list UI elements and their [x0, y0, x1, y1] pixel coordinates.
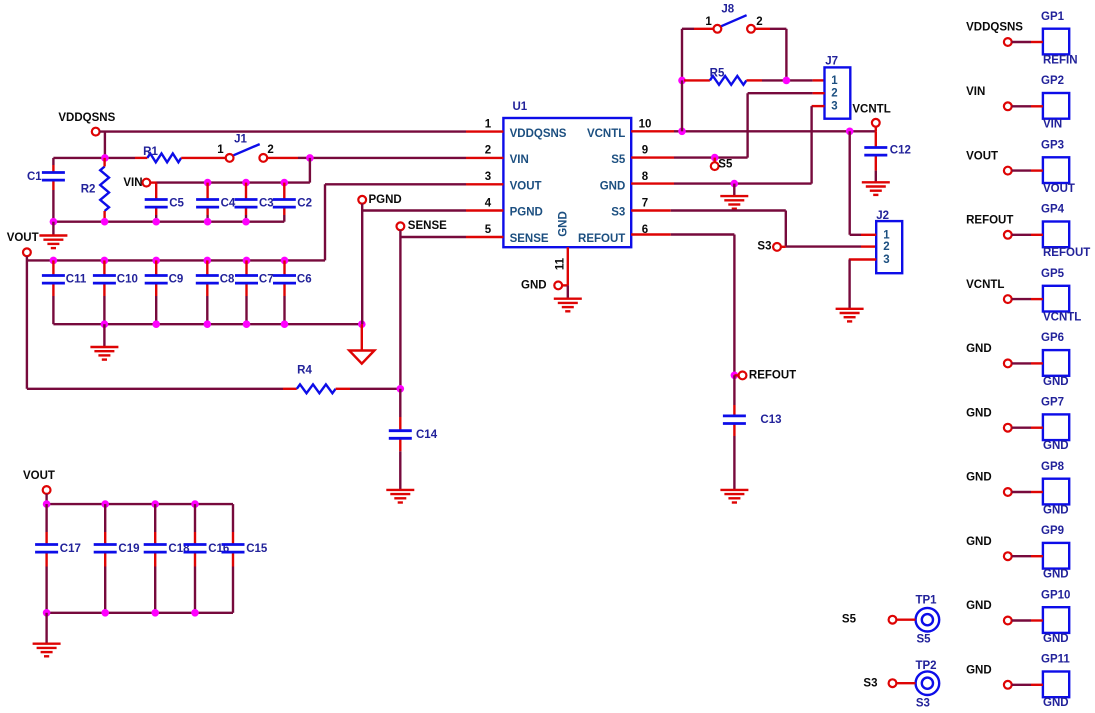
junction S5 [711, 154, 719, 162]
junction lower bus-PGND [358, 320, 366, 328]
svg-text:S3: S3 [611, 207, 625, 219]
connector GP11 [1041, 654, 1070, 710]
ground under C1 bus [39, 222, 67, 248]
svg-text:VOUT: VOUT [1043, 183, 1075, 195]
connector GP3 [1041, 139, 1075, 195]
svg-text:GND: GND [1043, 440, 1069, 452]
svg-text:C13: C13 [760, 414, 781, 426]
U1 pin names right column [578, 128, 626, 245]
node GND terminal (GP11) [966, 665, 1043, 689]
svg-text:SENSE: SENSE [510, 233, 549, 245]
svg-text:GP2: GP2 [1041, 75, 1064, 87]
svg-text:C19: C19 [118, 543, 139, 555]
junction bus-C3 [242, 218, 250, 226]
wire VIN bus [150, 181, 310, 183]
svg-text:GND: GND [558, 211, 570, 237]
svg-text:VOUT: VOUT [510, 181, 542, 193]
connector GP7 [1041, 397, 1069, 453]
svg-text:7: 7 [642, 197, 648, 209]
svg-text:GP9: GP9 [1041, 525, 1064, 537]
U1 left pin numbers 1-5 [485, 118, 492, 235]
svg-text:VCNTL: VCNTL [852, 103, 890, 115]
wire SENSE to U1 pin 5 [400, 230, 503, 237]
svg-text:GND: GND [600, 181, 626, 193]
svg-text:S3: S3 [863, 678, 877, 690]
svg-text:4: 4 [485, 197, 492, 209]
svg-text:GP8: GP8 [1041, 461, 1065, 473]
capacitor C10 [93, 260, 138, 324]
capacitor C7 [235, 260, 274, 324]
svg-text:3: 3 [485, 171, 491, 183]
node REFOUT terminal (GP4) [966, 215, 1043, 239]
wire S3 to J2 pin 2 [786, 245, 876, 247]
svg-text:R1: R1 [143, 146, 158, 158]
svg-text:GP7: GP7 [1041, 397, 1064, 409]
junction VOUT-C10 [101, 257, 109, 265]
node GND terminal (GP7) [966, 407, 1043, 431]
svg-text:1: 1 [705, 16, 712, 28]
junction bus-C4 [204, 218, 212, 226]
svg-text:J1: J1 [234, 134, 247, 146]
connector GP2 [1041, 75, 1069, 131]
svg-text:3: 3 [831, 101, 837, 113]
svg-text:1: 1 [831, 75, 838, 87]
svg-text:GP4: GP4 [1041, 204, 1065, 216]
svg-text:GP3: GP3 [1041, 139, 1064, 151]
wire J1 pin 2 to U1 pin 2 [267, 157, 503, 159]
U1 right pin numbers 10-6 [639, 118, 652, 235]
junction R4-C14-SENSE [397, 385, 405, 393]
junction VOUT-C7 [243, 257, 251, 265]
U1 pin name GND (pin 11, rotated) [558, 211, 570, 237]
svg-text:VDDQSNS: VDDQSNS [58, 112, 115, 124]
svg-text:J8: J8 [721, 3, 734, 15]
svg-text:GND: GND [1043, 376, 1069, 388]
capacitor C14 [389, 389, 438, 490]
svg-text:C10: C10 [117, 274, 138, 286]
junction GND-pin8 [731, 180, 739, 188]
svg-text:2: 2 [267, 144, 273, 156]
wire R5 to J7 pin 1 [746, 79, 824, 81]
connector GP6 [1041, 332, 1069, 388]
capacitor C2 [273, 183, 312, 222]
node GND terminal (GP10) [966, 600, 1043, 624]
wire SENSE down to R4 node [399, 237, 401, 389]
ground under C12 [862, 182, 890, 195]
capacitor C9 [145, 260, 184, 324]
junction VIN branch [306, 154, 314, 162]
wire U1 pin 10 to VCNTL [631, 130, 876, 132]
capacitor C13 [723, 375, 782, 490]
junction bus-C5 [152, 218, 160, 226]
svg-text:S5: S5 [916, 634, 931, 646]
junction pin10-J8 branch [678, 128, 686, 136]
wire VOUT bus [27, 184, 504, 260]
ground under C10 [90, 324, 118, 359]
wire VOUT cap bank bottom bus [47, 612, 233, 614]
svg-text:J2: J2 [876, 210, 889, 222]
connector J7 [825, 56, 851, 119]
node S5 terminal (TP1) [842, 613, 915, 625]
svg-text:GND: GND [1043, 633, 1069, 645]
node GND terminal (GP8) [966, 472, 1043, 496]
svg-text:VIN: VIN [123, 177, 142, 189]
node GND terminal (GP6) [966, 343, 1043, 367]
junction top bus-C19 [101, 500, 109, 508]
capacitor C1 [27, 158, 65, 222]
connector GP10 [1041, 589, 1070, 645]
svg-text:GND: GND [1043, 504, 1069, 516]
junction VOUT-C11 [50, 257, 58, 265]
svg-text:VCNTL: VCNTL [1043, 312, 1081, 324]
svg-text:J7: J7 [825, 56, 838, 68]
switch J8 [705, 3, 762, 32]
svg-text:1: 1 [485, 118, 492, 130]
wire R5 left lead [682, 80, 710, 131]
junction VIN-C3 [242, 179, 250, 187]
svg-text:GP10: GP10 [1041, 589, 1070, 601]
svg-text:C4: C4 [221, 197, 236, 209]
node VIN terminal (GP2) [966, 86, 1043, 110]
junction VIN-C4 [204, 179, 212, 187]
svg-text:VIN: VIN [510, 154, 529, 166]
svg-text:2: 2 [831, 88, 837, 100]
node VDDQSNS terminal [58, 112, 115, 136]
test point TP1 [915, 595, 939, 646]
node VOUT terminal [7, 232, 39, 256]
op-amp U1 (IC body) [503, 101, 631, 247]
svg-text:C14: C14 [416, 429, 438, 441]
wire VOUT cap bank top bus [47, 494, 233, 504]
svg-text:GP5: GP5 [1041, 268, 1065, 280]
svg-text:VDDQSNS: VDDQSNS [966, 22, 1023, 34]
junction bottom bus-C16 [191, 609, 199, 617]
capacitor C11 [42, 260, 87, 324]
svg-text:VOUT: VOUT [23, 470, 55, 482]
test point TP2 [915, 660, 939, 710]
svg-text:PGND: PGND [510, 207, 543, 219]
capacitor C4 [196, 183, 236, 222]
svg-text:GND: GND [966, 600, 992, 612]
capacitor C16 [184, 504, 230, 613]
U1 pin number 11 (rotated) [555, 257, 567, 270]
svg-text:2: 2 [756, 16, 762, 28]
switch J1 [217, 134, 274, 162]
junction pin10-J2 branch [846, 128, 854, 136]
svg-text:GND: GND [966, 665, 992, 677]
node S3 terminal [757, 240, 785, 252]
svg-text:GND: GND [1043, 697, 1069, 709]
wire U1 pin 11 [567, 247, 569, 285]
svg-text:GND: GND [521, 280, 547, 292]
junction VOUT-C6 [281, 257, 289, 265]
ground under pin 11 [554, 285, 582, 311]
svg-text:2: 2 [883, 241, 889, 253]
node VIN terminal [123, 177, 150, 189]
junction VOUT-C8 [204, 257, 212, 265]
wire U1 pin 9 (S5) [631, 156, 747, 158]
resistor R4 [297, 365, 336, 394]
svg-text:GND: GND [966, 536, 992, 548]
connector GP9 [1041, 525, 1069, 581]
junction lower bus-C9 [152, 320, 160, 328]
U1 pin names left column [510, 128, 567, 245]
junction top bus-C18 [151, 500, 159, 508]
resistor R5 [710, 68, 747, 85]
svg-text:GP1: GP1 [1041, 11, 1065, 23]
svg-text:C17: C17 [60, 543, 81, 555]
junction bus-R2 [101, 218, 109, 226]
junction top bus-C17 [43, 500, 51, 508]
node VOUT terminal (cap bank) [23, 470, 55, 494]
svg-text:S5: S5 [611, 154, 626, 166]
svg-text:C8: C8 [220, 274, 235, 286]
svg-text:VDDQSNS: VDDQSNS [510, 128, 567, 140]
svg-text:C3: C3 [259, 197, 274, 209]
junction lower bus-C10 [101, 320, 109, 328]
ground under cap bank [33, 613, 61, 657]
svg-text:S5: S5 [718, 158, 733, 170]
junction VIN-C2 [281, 179, 289, 187]
wire VOUT vertical to R4 [26, 256, 28, 389]
svg-text:GND: GND [966, 472, 992, 484]
wire ground bus under C1-C2 [53, 220, 284, 222]
wire PGND to chassis ground [361, 324, 363, 350]
resistor R2 [81, 158, 109, 222]
wire R1 to J1 pin 1 [181, 157, 226, 159]
wire J7 pin 2 to S5 net [748, 93, 825, 157]
connector GP8 [1041, 461, 1069, 517]
svg-text:S3: S3 [916, 698, 930, 710]
svg-text:C1: C1 [27, 171, 42, 183]
node REFOUT terminal [734, 369, 796, 381]
wire J2 pin 3 to ground [849, 260, 876, 309]
svg-text:1: 1 [217, 144, 224, 156]
node S5 terminal [711, 158, 733, 171]
svg-text:R5: R5 [710, 68, 725, 80]
capacitor C18 [144, 504, 190, 613]
ground under J2 [836, 309, 864, 322]
capacitor C15 [222, 504, 268, 613]
svg-text:R2: R2 [81, 184, 96, 196]
connector GP5 [1041, 268, 1081, 324]
wire U1 pin 6 (REFOUT) [631, 235, 734, 376]
svg-text:GND: GND [1043, 569, 1069, 581]
svg-text:C12: C12 [890, 144, 911, 156]
svg-text:REFOUT: REFOUT [966, 215, 1013, 227]
capacitor C19 [94, 504, 140, 613]
svg-text:TP2: TP2 [915, 660, 936, 672]
svg-text:C11: C11 [66, 274, 87, 286]
wire VOUT to R4 [27, 388, 297, 390]
junction REFOUT [731, 372, 739, 380]
capacitor C6 [273, 260, 312, 324]
node PGND terminal [358, 194, 401, 206]
junction bottom bus-C17 [43, 609, 51, 617]
junction R5 left [678, 77, 686, 85]
svg-text:REFOUT: REFOUT [1043, 247, 1090, 259]
junction lower bus-C6 [281, 320, 289, 328]
svg-text:VIN: VIN [1043, 119, 1062, 131]
wire J7 pin 3 to GND net [812, 106, 825, 184]
svg-text:9: 9 [642, 145, 648, 157]
svg-text:SENSE: SENSE [408, 220, 447, 232]
svg-text:C5: C5 [169, 197, 184, 209]
junction VOUT-C9 [152, 257, 160, 265]
node VOUT terminal (GP3) [966, 150, 1043, 174]
wire VIN branch down [309, 158, 311, 183]
capacitor C17 [35, 504, 81, 613]
node GND terminal (GP9) [966, 536, 1043, 560]
wire VCNTL to J2 pin 1 [850, 131, 877, 235]
svg-text:REFIN: REFIN [1043, 54, 1078, 66]
svg-text:GND: GND [966, 407, 992, 419]
junction R2 top [101, 154, 109, 162]
svg-text:VCNTL: VCNTL [966, 279, 1004, 291]
wire ground bus under C11-C6 [53, 323, 361, 325]
junction R5 right [783, 77, 791, 85]
svg-text:GP6: GP6 [1041, 332, 1064, 344]
capacitor C3 [235, 183, 274, 222]
ground under C14 [386, 490, 414, 503]
junction bottom bus-C18 [151, 609, 159, 617]
wire J8 right leg [755, 29, 787, 81]
svg-text:2: 2 [485, 145, 491, 157]
svg-text:REFOUT: REFOUT [578, 233, 625, 245]
ground under C13 [720, 490, 748, 503]
node S3 terminal (TP2) [863, 678, 915, 690]
capacitor C5 [145, 183, 185, 222]
capacitor C12 [864, 131, 911, 182]
svg-text:VIN: VIN [966, 86, 985, 98]
svg-text:VOUT: VOUT [7, 232, 39, 244]
svg-text:11: 11 [555, 257, 567, 270]
capacitor C8 [196, 260, 235, 324]
svg-text:U1: U1 [513, 101, 528, 113]
junction bus-C1 [50, 218, 58, 226]
wire R4 to C14 node [336, 388, 401, 390]
junction lower bus-C7 [243, 320, 251, 328]
svg-text:C2: C2 [297, 197, 312, 209]
svg-text:R4: R4 [297, 365, 312, 377]
node GND terminal (pin 11) [521, 280, 568, 292]
wire U1 pin 7 (S3) [631, 211, 786, 247]
svg-text:REFOUT: REFOUT [749, 369, 796, 381]
svg-text:S5: S5 [842, 613, 857, 625]
svg-text:GND: GND [966, 343, 992, 355]
node SENSE terminal [397, 220, 448, 232]
chassis ground (triangle) [349, 351, 374, 364]
svg-text:GP11: GP11 [1041, 654, 1070, 666]
node VCNTL terminal [852, 103, 890, 131]
ground under pin 8 [720, 184, 748, 209]
svg-text:3: 3 [883, 254, 889, 266]
wire C1 top to R1 [53, 157, 147, 159]
svg-text:8: 8 [642, 171, 649, 183]
svg-text:S3: S3 [757, 240, 771, 252]
wire U1 pin 8 (GND) [631, 182, 811, 184]
wire PGND to U1 pin 4 [362, 204, 503, 325]
svg-text:C9: C9 [169, 274, 184, 286]
wire J8 left leg [682, 29, 714, 81]
svg-text:C15: C15 [246, 543, 268, 555]
junction top bus-C16 [191, 500, 199, 508]
node VCNTL terminal (GP5) [966, 279, 1043, 303]
svg-text:VCNTL: VCNTL [587, 128, 625, 140]
connector J2 [876, 210, 902, 273]
node VDDQSNS terminal (GP1) [966, 22, 1043, 46]
junction lower bus-C8 [204, 320, 212, 328]
wire VDDQSNS to U1 pin 1 [100, 132, 504, 158]
svg-text:C6: C6 [297, 274, 312, 286]
junction bottom bus-C19 [101, 609, 109, 617]
svg-text:TP1: TP1 [915, 595, 937, 607]
connector GP4 [1041, 204, 1090, 260]
svg-text:1: 1 [883, 229, 890, 241]
connector GP1 [1041, 11, 1078, 67]
svg-text:VOUT: VOUT [966, 150, 998, 162]
svg-text:5: 5 [485, 224, 492, 236]
svg-text:C7: C7 [259, 274, 274, 286]
svg-text:PGND: PGND [369, 194, 402, 206]
svg-text:10: 10 [639, 118, 652, 130]
resistor R1 [143, 146, 181, 162]
